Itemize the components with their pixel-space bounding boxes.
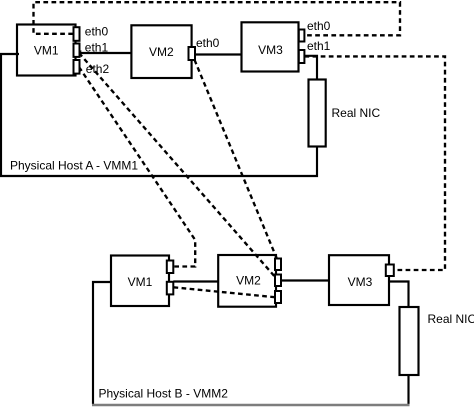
dashed link B: VM1 eth1 to bottom VM2 middle port <box>79 53 276 278</box>
svg-text:VM2: VM2 <box>236 274 261 288</box>
svg-text:eth0: eth0 <box>196 36 220 50</box>
port: bottom VM2 port2 <box>275 275 281 287</box>
wire: VM1 bottom to VM2 bottom <box>173 280 218 282</box>
port: bottom VM2 port3 <box>275 291 281 303</box>
VM2 box (bottom) <box>218 255 276 307</box>
port: bottom VM2 port1 <box>275 259 281 271</box>
dashed link: VM1 eth0 to VM3 eth0 (over the top) <box>34 2 401 35</box>
svg-text:eth2: eth2 <box>86 62 110 76</box>
port: VM2 eth0 <box>189 47 196 60</box>
host B bottom edge (faded at image edge) <box>92 404 410 407</box>
port: bottom VM1 port2 <box>167 282 174 295</box>
port: VM1 eth1 <box>74 44 80 57</box>
dashed link C: VM2 eth0 to bottom VM2 port1 <box>195 60 278 259</box>
ports (NIC connectors) <box>74 27 394 303</box>
svg-text:Physical Host B - VMM2: Physical Host B - VMM2 <box>99 387 229 401</box>
svg-text:VM2: VM2 <box>149 45 174 59</box>
port: VM1 eth0 <box>74 27 80 41</box>
VM3 box (bottom) <box>329 255 389 305</box>
dashed virtual links <box>34 2 446 297</box>
VM2 box (top) <box>131 25 191 78</box>
VM3 box (top) <box>242 22 299 71</box>
svg-text:VM1: VM1 <box>128 275 153 289</box>
dashed link: VM3 eth1 (top) to VM3 port (bottom) <box>305 56 446 270</box>
wire: VM1 eth1 to VM2 left <box>79 52 131 54</box>
svg-text:VM3: VM3 <box>258 43 283 57</box>
arrowhead at VM1 eth1 <box>76 49 82 54</box>
svg-text:Physical Host A - VMM1: Physical Host A - VMM1 <box>10 158 138 172</box>
host box A outline (Physical Host A - VMM1) <box>1 54 317 176</box>
svg-text:VM1: VM1 <box>34 44 59 58</box>
dashed link D: bottom VM1 port2 to bottom VM2 port3 <box>174 287 277 297</box>
wire: VM2 bottom to VM3 bottom <box>281 279 330 281</box>
port: bottom VM1 port1 <box>167 261 174 274</box>
svg-text:Real NIC: Real NIC <box>428 312 474 326</box>
svg-text:eth1: eth1 <box>85 41 109 55</box>
dashed link A: VM1 eth2 to bottom VM1 port1 <box>79 67 195 267</box>
port: bottom VM3 <box>386 265 394 277</box>
port: VM3 eth1 <box>299 50 305 63</box>
svg-text:eth0: eth0 <box>307 19 331 33</box>
port: VM3 eth0 <box>299 30 305 42</box>
svg-text:eth0: eth0 <box>85 25 109 39</box>
port: VM1 eth2 <box>74 60 80 74</box>
svg-text:Real NIC: Real NIC <box>332 106 381 120</box>
host box B outline (Physical Host B - VMM2) <box>93 282 409 405</box>
svg-text:eth1: eth1 <box>307 39 331 53</box>
wire: VM2 eth0 to VM3 left <box>195 53 242 55</box>
svg-text:VM3: VM3 <box>348 275 373 289</box>
Real NIC box B <box>400 307 419 375</box>
VM1 box (top) <box>17 25 76 76</box>
VM1 box (bottom) <box>111 256 169 307</box>
Real NIC box A <box>309 80 326 147</box>
